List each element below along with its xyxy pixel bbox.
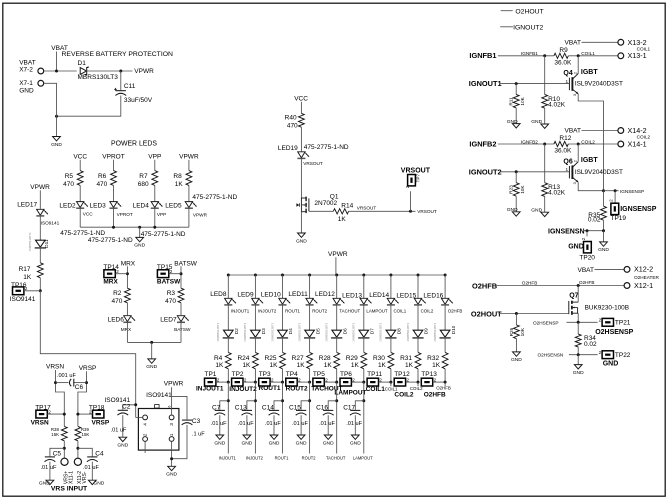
ground (R11): [507, 119, 520, 128]
wire R8 to LED5: [188, 185, 190, 201]
net label TACHOUT small (led): [339, 309, 360, 314]
svg-text:O2HOUT: O2HOUT: [515, 8, 543, 15]
net label VBAT (X14-2): [565, 128, 582, 135]
wire col ROUT1 down: [282, 382, 284, 453]
svg-text:.01 uF: .01 uF: [211, 421, 227, 427]
junction array bus col 6: [362, 274, 365, 277]
connector X13-2 label: [628, 38, 647, 47]
wire TP11 to col: [379, 381, 391, 383]
svg-text:10K: 10K: [520, 327, 525, 336]
wire TP13 to col: [433, 381, 445, 383]
svg-text:VBAT: VBAT: [565, 40, 582, 47]
resistor R40 designator: [285, 115, 297, 122]
wire LED12 to D6: [336, 305, 338, 331]
net label COIL2 small: [581, 139, 595, 144]
capacitor C4 value: [83, 465, 99, 471]
diode D7: [358, 330, 369, 338]
svg-text:GND: GND: [296, 440, 307, 446]
svg-text:LED8: LED8: [210, 291, 227, 298]
junction C2 tap: [134, 403, 137, 406]
diode D1 designator: [78, 60, 87, 67]
junction TP11: [389, 381, 392, 384]
svg-text:1K: 1K: [432, 362, 441, 369]
ground (C13): [241, 435, 252, 446]
wire IGNSENSN: [583, 230, 603, 232]
diode D3: [250, 330, 261, 338]
wire VPWR to pin3: [171, 387, 173, 415]
svg-text:VRSOUT: VRSOUT: [357, 206, 377, 211]
wire R28 to tp junction: [336, 369, 338, 382]
net label VPWR (power led column): [179, 153, 199, 160]
svg-text:C7: C7: [212, 404, 221, 411]
wire R17 to TP16 junction: [39, 278, 41, 291]
capacitor C16: [323, 410, 334, 415]
wire C2 tap: [123, 405, 136, 410]
svg-text:GND: GND: [39, 480, 50, 486]
svg-text:BATSW: BATSW: [174, 260, 197, 267]
wire array top bus: [228, 274, 445, 276]
resistor R25: [280, 352, 286, 368]
svg-text:2: 2: [573, 72, 577, 74]
resistor R32 designator: [427, 355, 439, 362]
wire TP5 to col: [324, 381, 336, 383]
LED LED8: [224, 298, 236, 305]
svg-text:IGNOUT1: IGNOUT1: [469, 79, 502, 88]
capacitor C5 designator: [53, 450, 62, 457]
capacitor C15: [296, 410, 307, 415]
part number LED3 475-2775-1-ND: [88, 237, 133, 244]
net label MRX small: [121, 327, 132, 332]
wire D8 to R30: [390, 338, 392, 353]
svg-text:2: 2: [573, 160, 577, 162]
net label COIL1 small (led): [394, 309, 407, 314]
LED LED17: [36, 209, 48, 216]
svg-text:VPWR: VPWR: [193, 213, 208, 218]
wire TP1 to col: [216, 381, 228, 383]
svg-text:.01 uF: .01 uF: [265, 421, 281, 427]
testpoint TP21: [599, 318, 614, 326]
svg-text:IGBT: IGBT: [581, 157, 598, 164]
junction power led bus 2: [138, 226, 141, 229]
svg-text:R8: R8: [173, 173, 182, 180]
svg-text:.01 uF: .01 uF: [292, 421, 308, 427]
testpoint TP12 designator: [394, 371, 410, 378]
LED LED12: [333, 298, 345, 305]
resistor R14: [333, 209, 348, 214]
svg-text:1K: 1K: [324, 362, 333, 369]
svg-text:IGNOUT2: IGNOUT2: [513, 25, 543, 32]
LED LED16 designator: [423, 293, 443, 300]
wire C7 tap: [220, 401, 229, 410]
connector ISO9141 pin 4: [143, 415, 149, 426]
wire C2 to gnd: [122, 415, 124, 437]
svg-text:R23: R23: [509, 185, 514, 194]
junction TP15: [180, 272, 183, 275]
svg-text:1K: 1K: [405, 362, 414, 369]
svg-text:Q6: Q6: [563, 158, 572, 165]
resistor R4 value: [215, 362, 224, 369]
net label IGNSENSN bold: [548, 228, 585, 235]
transistor Q4 designator: [563, 70, 572, 77]
diode D6 part number: [325, 322, 329, 341]
wire TP20 lead: [586, 231, 588, 237]
svg-text:VCC: VCC: [83, 211, 94, 216]
svg-text:O2HFB: O2HFB: [424, 391, 446, 398]
wire ISO9141 net down-right: [40, 291, 135, 418]
svg-text:VPROT: VPROT: [102, 153, 124, 160]
testpoint TP19: [608, 199, 618, 215]
ground (C4): [88, 480, 104, 486]
capacitor C4 designator: [95, 450, 104, 457]
svg-text:.01 uF: .01 uF: [83, 465, 99, 471]
svg-text:36.0K: 36.0K: [554, 59, 572, 66]
svg-text:ROUT1: ROUT1: [259, 385, 281, 392]
capacitor C2 value: [111, 427, 127, 433]
wire VPROT to R6: [113, 160, 115, 171]
ground (C7): [214, 435, 225, 446]
diode D4 designator: [288, 328, 293, 334]
svg-text:470: 470: [287, 123, 298, 130]
resistor R8 designator: [173, 173, 182, 180]
svg-text:1SMB5913BT3: 1SMB5913BT3: [243, 322, 247, 341]
capacitor C3 designator: [192, 418, 201, 425]
testpoint TP12: [394, 378, 409, 387]
resistor R25 value: [270, 362, 279, 369]
LED LED15: [414, 298, 426, 305]
svg-text:33uF/50V: 33uF/50V: [124, 97, 153, 104]
transistor Q6 IGBT: [566, 160, 579, 184]
svg-text:VRS INPUT: VRS INPUT: [51, 486, 88, 493]
svg-text:COIL1: COIL1: [385, 387, 398, 392]
junction cap C7: [227, 399, 230, 402]
svg-text:X11-1: X11-1: [69, 471, 75, 484]
wire C7 to gnd: [219, 415, 221, 435]
net label O2HEATER (connector): [634, 275, 660, 280]
diode D4: [277, 330, 288, 338]
resistor R10 value: [548, 102, 566, 109]
net label COIL1 small: [581, 51, 595, 56]
ground (O2HSENSN): [573, 365, 584, 376]
svg-text:VCC: VCC: [294, 96, 308, 103]
svg-text:C14: C14: [262, 404, 274, 411]
svg-text:Q4: Q4: [563, 70, 572, 77]
svg-text:C5: C5: [53, 450, 62, 457]
net label ROUT2 small (led): [312, 309, 327, 314]
capacitor C6 value: [57, 373, 77, 379]
svg-text:VPWR: VPWR: [179, 153, 199, 160]
junction power led bus 3: [153, 226, 156, 229]
svg-text:1K: 1K: [175, 181, 184, 188]
junction GND bottom: [55, 115, 58, 118]
svg-text:INJOUT2: INJOUT2: [258, 309, 277, 314]
capacitor C14 value: [265, 421, 281, 427]
diode D6 designator: [342, 328, 347, 334]
svg-text:INJOUT2: INJOUT2: [229, 386, 257, 393]
svg-text:470: 470: [112, 298, 123, 305]
capacitor C15 value: [292, 421, 308, 427]
svg-text:TACHOUT: TACHOUT: [339, 309, 360, 314]
wire bus to LED8: [227, 275, 229, 298]
junction C11 top: [119, 70, 122, 73]
capacitor C17 value: [346, 421, 362, 427]
junction cap C16: [335, 399, 338, 402]
junction VBAT: [55, 70, 58, 73]
wire VPWR to R8: [188, 160, 190, 171]
wire D4 to R25: [282, 338, 284, 353]
svg-text:ISO9141: ISO9141: [146, 392, 172, 399]
diode D2: [223, 330, 234, 338]
resistor R39 value: [82, 432, 90, 437]
capacitor C7 value: [211, 421, 227, 427]
resistor R6: [111, 171, 117, 186]
testpoint TP16 designator: [11, 282, 27, 289]
net label TACHOUT bottom: [326, 456, 346, 461]
svg-text:ROUT2: ROUT2: [286, 385, 308, 392]
svg-text:ROUT2: ROUT2: [312, 309, 327, 314]
svg-text:D1: D1: [78, 60, 87, 67]
connector X7-2 label VBAT: [19, 59, 36, 66]
svg-text:COIL2: COIL2: [394, 392, 414, 399]
LED LED11 designator: [288, 291, 308, 298]
transistor Q1 part 2N7002: [314, 200, 337, 207]
junction emitter sense: [602, 189, 605, 192]
testpoint TP22 designator: [615, 352, 631, 359]
wire Q1 source to gnd: [300, 212, 302, 233]
section title REVERSE BATTERY PROTECTION: [62, 51, 174, 58]
wire C4 to gnd: [91, 462, 93, 481]
wire bus to LED14: [390, 275, 392, 298]
net label BATSW bold under TP15: [157, 279, 181, 286]
connector ISO9141 box: [138, 405, 179, 451]
wire R6 to LED3: [113, 185, 115, 201]
svg-text:2N7002: 2N7002: [314, 200, 337, 207]
wire R25 to tp junction: [282, 369, 284, 382]
svg-text:GND: GND: [531, 119, 542, 125]
svg-text:TP7: TP7: [416, 174, 421, 183]
svg-text:470: 470: [96, 181, 107, 188]
net label VBAT (X13-2): [565, 40, 582, 47]
testpoint TP14: [104, 269, 119, 277]
wire C15 tap: [301, 401, 310, 410]
resistor R10: [542, 95, 548, 109]
svg-text:VPWR: VPWR: [30, 184, 50, 191]
testpoint TP7: [405, 175, 415, 189]
junction C5 tap: [63, 447, 66, 450]
capacitor C3: [182, 420, 193, 425]
svg-text:GND: GND: [531, 207, 542, 213]
wire C16 tap: [328, 401, 337, 410]
net label O2HSENSN small: [538, 353, 564, 358]
wire R5 to LED2: [79, 185, 81, 201]
resistor R26: [514, 325, 520, 339]
connector ISO9141 pin 3: [169, 415, 175, 426]
LED LED6: [123, 316, 135, 323]
resistor R31 designator: [400, 355, 412, 362]
resistor R2: [125, 288, 131, 303]
resistor R5: [77, 171, 83, 186]
resistor R6 designator: [98, 173, 107, 180]
wire bus to LED9: [254, 275, 256, 298]
testpoint TP7 designator: [416, 174, 421, 183]
resistor R14 designator: [341, 203, 353, 210]
svg-text:GND: GND: [507, 119, 518, 125]
diode D10: [440, 330, 451, 338]
svg-text:POWER LEDS: POWER LEDS: [111, 140, 157, 147]
ground (R10): [531, 119, 548, 128]
net label ROUT2 bottom: [302, 456, 317, 461]
junction cap C14: [281, 399, 284, 402]
testpoint TP19 designator: [611, 215, 627, 222]
svg-text:1K: 1K: [378, 362, 387, 369]
svg-text:3: 3: [169, 423, 175, 426]
resistor R30: [388, 352, 394, 368]
resistor R8 value: [175, 181, 184, 188]
svg-text:4.02K: 4.02K: [548, 190, 566, 197]
wire pin2 stub: [144, 441, 146, 453]
svg-text:TP2: TP2: [232, 371, 244, 378]
svg-text:O2HEATER: O2HEATER: [634, 275, 660, 280]
connector X14-1 label: [628, 139, 647, 148]
legend label IGNOUT2: [513, 25, 543, 32]
diode D10 part number: [433, 322, 437, 341]
resistor R12 value: [554, 148, 572, 155]
junction TP5: [335, 381, 338, 384]
net label O2HFB small (left): [522, 281, 538, 286]
ground (mrx/batsw): [146, 359, 157, 370]
svg-text:ISO9141: ISO9141: [41, 221, 60, 226]
wire R40 to LED19: [300, 127, 302, 151]
svg-text:O2HOUT: O2HOUT: [471, 309, 502, 318]
net label BATSW: [174, 260, 197, 267]
resistor R35 value: [588, 217, 601, 224]
wire sense to R34: [577, 322, 579, 334]
wire R9 to COIL1: [568, 55, 617, 57]
wire TP16 to junction: [24, 290, 40, 292]
svg-text:C3: C3: [192, 418, 201, 425]
svg-text:LED4: LED4: [133, 202, 150, 209]
svg-text:2: 2: [608, 199, 613, 202]
svg-text:LED19: LED19: [278, 145, 298, 152]
capacitor C17: [350, 410, 361, 415]
wire VBAT to X12-2: [595, 268, 625, 270]
svg-text:475-2775-1-ND: 475-2775-1-ND: [304, 144, 349, 151]
wire VCC to R5: [79, 160, 81, 171]
junction O2HSENSP: [577, 321, 580, 324]
svg-text:3: 3: [573, 182, 577, 184]
LED LED3 designator: [90, 202, 107, 209]
svg-text:LED15: LED15: [396, 293, 416, 300]
junction array bus col 8: [417, 274, 420, 277]
connector X12-1: [624, 283, 630, 289]
wire D11 to R17: [39, 248, 41, 263]
capacitor C13 value: [238, 421, 254, 427]
net label O2HSENSP small: [533, 320, 559, 325]
svg-text:BUK9230-100B: BUK9230-100B: [585, 304, 629, 311]
wire VBAT vertical: [56, 52, 58, 72]
svg-text:36.0K: 36.0K: [554, 148, 572, 155]
svg-text:O2HFB: O2HFB: [472, 281, 497, 290]
svg-text:COIL2: COIL2: [581, 139, 595, 144]
junction TP19 tap: [614, 189, 617, 192]
net label VPWR (led17 chain): [30, 184, 50, 191]
wire R38 to X11-1: [63, 441, 65, 459]
wire D6 to R28: [336, 338, 338, 353]
resistor R28 value: [324, 362, 333, 369]
svg-text:R5: R5: [65, 173, 74, 180]
svg-text:TP20: TP20: [579, 255, 595, 262]
resistor R3 designator: [167, 290, 176, 297]
capacitor C7 designator: [212, 404, 221, 411]
svg-text:LED17: LED17: [17, 201, 37, 208]
svg-text:COIL1: COIL1: [366, 386, 386, 393]
resistor R34: [575, 334, 581, 347]
resistor R35: [601, 206, 607, 220]
part number LED19 475-2775-1-ND: [304, 144, 349, 151]
net label ROUT2 bold under testpoint: [286, 385, 308, 392]
svg-text:1K: 1K: [23, 274, 32, 281]
svg-text:15K: 15K: [82, 432, 90, 437]
capacitor C3 value: [192, 431, 205, 437]
resistor R27: [307, 352, 313, 368]
svg-text:D9: D9: [424, 328, 429, 334]
wire LED3 to gnd bus: [113, 208, 115, 227]
svg-text:15K: 15K: [51, 432, 59, 437]
resistor R23 value: [520, 185, 525, 194]
net label INJOUT2 bottom: [246, 456, 264, 461]
wire C11 top lead: [120, 71, 122, 90]
testpoint TP18: [89, 410, 104, 419]
ground (ISO9141): [166, 466, 177, 477]
svg-text:REVERSE BATTERY PROTECTION: REVERSE BATTERY PROTECTION: [62, 51, 174, 58]
resistor R32 value: [432, 362, 441, 369]
wire R11 to gnd: [515, 108, 517, 124]
svg-text:LED10: LED10: [261, 292, 281, 299]
svg-text:LED6: LED6: [108, 317, 125, 324]
junction gate/R23: [515, 170, 518, 173]
wire C14 tap: [274, 401, 283, 410]
wire IGNFB1: [498, 55, 554, 57]
wire C5 to gnd: [49, 462, 51, 481]
wire col COIL2 stub: [417, 382, 419, 386]
junction IGNFB1/R10: [543, 54, 546, 57]
svg-text:C11: C11: [124, 83, 136, 90]
LED LED13: [360, 298, 372, 305]
svg-text:X7-1: X7-1: [19, 80, 33, 87]
testpoint TP3 designator: [259, 371, 271, 378]
connector ISO9141 pin 2: [143, 433, 149, 441]
junction TP12: [417, 381, 420, 384]
svg-text:R9: R9: [559, 47, 568, 54]
svg-text:TP19: TP19: [611, 215, 627, 222]
net label O2HFB small (led): [448, 309, 463, 314]
junction TP1: [227, 381, 230, 384]
svg-text:GND: GND: [568, 243, 584, 250]
svg-text:LED16: LED16: [423, 293, 443, 300]
svg-text:D4: D4: [288, 328, 293, 334]
diode D8 part number: [379, 322, 383, 341]
wire Q6 collector to COIL2: [577, 144, 579, 162]
wire col COIL1 stub: [390, 382, 392, 386]
wire BATSW down: [180, 266, 182, 288]
junction O2HFB: [577, 284, 580, 287]
connector X14-2: [618, 128, 624, 134]
resistor R28: [334, 352, 340, 368]
svg-text:ISL9V2040D3ST: ISL9V2040D3ST: [575, 81, 623, 88]
diode D11 part number: [28, 232, 32, 251]
svg-text:1K: 1K: [215, 362, 224, 369]
diode D3 designator: [261, 328, 266, 334]
junction O2HOUT/R26: [515, 312, 518, 315]
